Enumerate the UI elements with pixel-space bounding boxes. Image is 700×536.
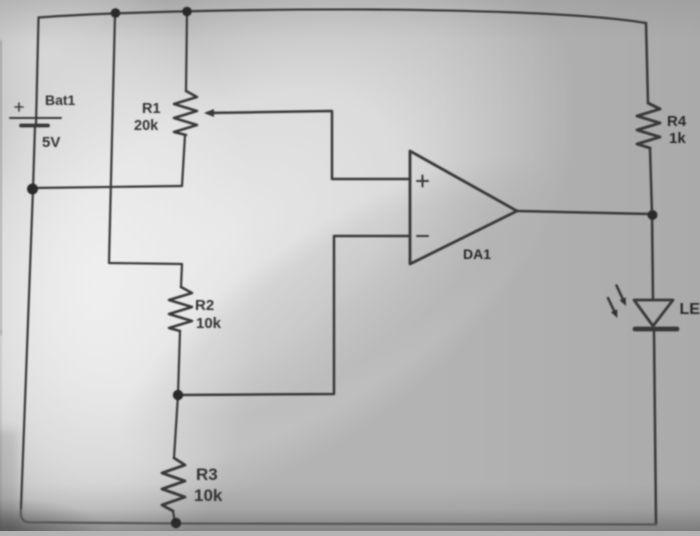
wire R3 to bottom rail xyxy=(173,511,175,523)
resistor R2 xyxy=(169,287,222,332)
svg-text:R4: R4 xyxy=(667,113,687,130)
svg-text:1k: 1k xyxy=(669,130,686,147)
wire R1 bottom leg xyxy=(182,135,185,186)
potentiometer R1 xyxy=(134,91,225,135)
svg-text:DA1: DA1 xyxy=(463,246,491,262)
wire bottom rail xyxy=(21,508,656,525)
node R2 R3 junction xyxy=(173,390,183,400)
wire left rail lower (battery minus node to bottom corner) xyxy=(21,189,33,508)
resistor R3 xyxy=(162,458,223,511)
wire R1 top leg to top rail xyxy=(186,12,187,91)
wire right rail LED to bottom corner xyxy=(654,331,656,524)
node top rail at second vertical xyxy=(111,8,121,18)
wire right rail R4 to output node xyxy=(650,148,652,214)
node output right rail xyxy=(648,210,658,220)
svg-text:10k: 10k xyxy=(196,315,222,332)
node battery minus xyxy=(27,184,38,195)
svg-text:Bat1: Bat1 xyxy=(45,92,76,108)
wire battery minus node to R1 bottom xyxy=(33,186,182,188)
wire wiper to op-amp plus input xyxy=(207,111,409,179)
wire node to op-amp minus input xyxy=(178,236,409,395)
wire top rail xyxy=(39,9,647,23)
wire battery minus to node xyxy=(33,126,35,189)
svg-text:10k: 10k xyxy=(194,486,223,505)
LED LED1 xyxy=(608,286,700,330)
svg-text:20k: 20k xyxy=(134,118,159,134)
wire node to R3 xyxy=(174,395,178,458)
resistor R4 xyxy=(637,103,687,148)
wire R2 to node xyxy=(178,331,180,395)
wire left rail upper (top rail to battery) xyxy=(36,18,39,126)
node top rail at R1 xyxy=(182,7,192,17)
wire second vertical from top rail to R2 xyxy=(109,14,182,287)
wire right rail upper (top corner to R4) xyxy=(646,23,648,103)
op-amp DA1 xyxy=(410,151,517,264)
battery Bat1 xyxy=(10,92,76,151)
wire op-amp output to right rail xyxy=(517,211,652,214)
svg-text:R1: R1 xyxy=(142,101,161,117)
svg-text:LED: LED xyxy=(680,301,700,318)
wire right rail output node to LED xyxy=(652,214,653,300)
svg-text:5V: 5V xyxy=(42,134,60,151)
node R3 bottom rail xyxy=(171,518,181,528)
svg-text:R2: R2 xyxy=(195,297,214,314)
svg-text:R3: R3 xyxy=(196,465,218,484)
